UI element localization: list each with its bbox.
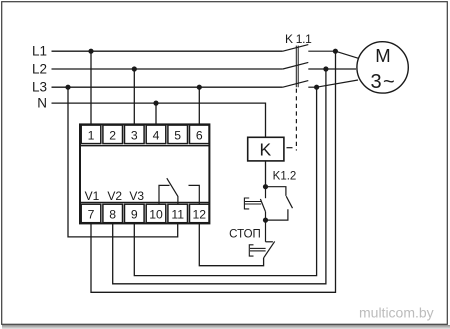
svg-text:4: 4 xyxy=(153,128,160,142)
terminal 5 xyxy=(168,125,188,144)
stop button SB2 contact xyxy=(264,220,275,258)
svg-text:L1: L1 xyxy=(32,44,47,59)
wire N to terminal 4 xyxy=(155,103,157,124)
svg-text:8: 8 xyxy=(109,208,116,222)
wire L2 xyxy=(52,68,283,70)
wire L3 to terminal 6 xyxy=(198,87,200,124)
node B xyxy=(263,218,268,223)
start button SB1 contact xyxy=(260,187,265,220)
terminal 3 xyxy=(125,125,145,144)
wire N to coil K xyxy=(52,103,266,137)
terminal 4 xyxy=(146,125,166,144)
svg-text:multicom.by: multicom.by xyxy=(359,304,434,320)
linkage dashed to coil xyxy=(295,89,297,151)
terminal row separator bottom xyxy=(80,201,209,203)
terminal 9 xyxy=(125,204,145,223)
svg-text:12: 12 xyxy=(193,208,207,222)
svg-text:1: 1 xyxy=(88,128,95,142)
svg-text:3: 3 xyxy=(370,71,381,93)
terminal 11 xyxy=(168,204,188,223)
node A xyxy=(263,184,268,189)
linkage dash to K box xyxy=(287,147,293,149)
terminal 12 xyxy=(190,204,210,223)
watermark xyxy=(359,304,435,321)
svg-text:~: ~ xyxy=(383,71,395,93)
node motor L2 xyxy=(323,66,328,71)
wire terminal 9 to motor phase L3 xyxy=(134,87,316,275)
node L3/terminal6 xyxy=(197,85,202,90)
svg-text:V3: V3 xyxy=(129,189,144,203)
svg-text:11: 11 xyxy=(171,208,184,222)
svg-text:K 1.1: K 1.1 xyxy=(285,32,312,46)
terminal 8 xyxy=(103,204,123,223)
terminal 6 xyxy=(190,125,210,144)
terminal 7 xyxy=(81,204,101,223)
start button SB1 actuator xyxy=(244,198,261,209)
svg-text:9: 9 xyxy=(131,208,138,222)
svg-text:7: 7 xyxy=(88,208,95,222)
svg-text:5: 5 xyxy=(174,128,181,142)
svg-text:N: N xyxy=(37,96,47,111)
wire L3 xyxy=(52,86,283,88)
svg-text:V1: V1 xyxy=(85,189,100,203)
terminal 10 xyxy=(146,204,166,223)
contactor contact K1.1 pole 2 xyxy=(283,62,356,69)
motor lead 3 xyxy=(317,80,358,87)
svg-text:L3: L3 xyxy=(32,80,47,95)
node L1/terminal1 xyxy=(88,49,93,54)
wire terminal 8 to motor phase L2 xyxy=(113,69,326,284)
svg-text:M: M xyxy=(375,45,390,66)
svg-text:L2: L2 xyxy=(32,62,47,77)
linkage bars K1.1 xyxy=(296,46,298,88)
motor lead 1 xyxy=(335,51,358,58)
svg-text:K1.2: K1.2 xyxy=(273,171,297,183)
terminal row separator top xyxy=(80,145,209,147)
terminal 2 xyxy=(103,125,123,144)
wire terminal 12 to stop button xyxy=(199,223,263,265)
svg-text:K: K xyxy=(260,139,272,159)
wire L3 to terminal 11 xyxy=(68,87,178,237)
contactor contact K1.1 pole 3 xyxy=(283,81,317,88)
wire L1 to terminal 1 xyxy=(90,51,92,124)
svg-text:СТОП: СТОП xyxy=(229,229,261,241)
stop button SB2 actuator xyxy=(249,245,265,256)
node N/terminal4 xyxy=(153,101,158,106)
coil K xyxy=(248,137,284,161)
wire L1 xyxy=(52,50,283,52)
motor M xyxy=(357,42,408,93)
node motor L1 xyxy=(333,49,338,54)
wire L2 to terminal 3 xyxy=(133,69,135,124)
svg-text:2: 2 xyxy=(109,128,116,142)
contactor contact K1.1 pole 1 xyxy=(283,45,336,52)
contact K1.2 xyxy=(266,187,293,220)
svg-text:10: 10 xyxy=(149,208,163,222)
node L2/terminal3 xyxy=(132,66,137,71)
relay internal changeover contact xyxy=(159,178,199,203)
svg-text:3: 3 xyxy=(131,128,138,142)
node motor L3 xyxy=(314,85,319,90)
svg-text:V2: V2 xyxy=(107,189,122,203)
relay body U1 xyxy=(80,124,209,223)
svg-text:6: 6 xyxy=(196,128,203,142)
node L3 left xyxy=(65,85,70,90)
wire coil K to node A xyxy=(265,161,267,187)
terminal 1 xyxy=(81,125,101,144)
wire terminal 7 to motor phase L1 xyxy=(91,51,336,292)
